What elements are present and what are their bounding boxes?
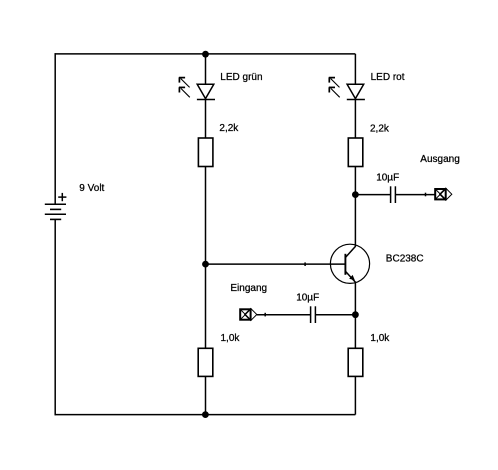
LED D2 rot — [329, 77, 365, 99]
svg-text:2,2k: 2,2k — [219, 123, 239, 134]
wire emitter down — [354, 283, 356, 349]
capacitor C2 10uF — [391, 186, 396, 203]
junction node base — [202, 261, 209, 268]
wire right branch R2 to transistor — [354, 167, 356, 247]
wire top rail — [55, 53, 356, 55]
svg-text:BC238C: BC238C — [386, 254, 424, 265]
connector X1 Eingang — [240, 308, 257, 320]
wire left branch middle — [205, 167, 207, 349]
wire left vertical upper (battery +) — [54, 53, 56, 204]
wire C2 to output connector — [395, 194, 435, 196]
wire bottom rail — [55, 414, 356, 416]
pin tick input — [264, 313, 266, 317]
battery plus sign — [58, 193, 66, 201]
svg-text:10µF: 10µF — [296, 293, 319, 304]
pin tick output — [425, 193, 427, 197]
pin tick base — [304, 262, 306, 266]
svg-text:1,0k: 1,0k — [221, 333, 241, 344]
wire output node to C2 — [355, 194, 390, 196]
svg-text:Eingang: Eingang — [230, 283, 267, 294]
junction node output — [352, 191, 359, 198]
wire right LED to R2 — [354, 100, 356, 139]
wire left branch bottom — [205, 376, 207, 414]
svg-text:9 Volt: 9 Volt — [79, 183, 104, 194]
svg-text:Ausgang: Ausgang — [420, 154, 459, 165]
svg-text:10µF: 10µF — [376, 173, 399, 184]
svg-text:1,0k: 1,0k — [370, 333, 390, 344]
wire left branch top — [205, 54, 207, 84]
svg-text:2,2k: 2,2k — [370, 123, 390, 134]
capacitor C1 10uF — [311, 306, 316, 323]
svg-text:LED rot: LED rot — [371, 72, 405, 83]
junction node emitter input — [352, 311, 359, 318]
resistor R3 1,0k left — [198, 348, 213, 376]
wire right branch top — [354, 54, 356, 84]
wire left LED to R1 — [205, 100, 207, 139]
resistor R2 2,2k — [348, 138, 363, 167]
svg-text:LED grün: LED grün — [220, 72, 262, 83]
wire left vertical lower (battery -) — [54, 219, 56, 415]
wire input connector to C1 — [257, 314, 311, 316]
resistor R1 2,2k — [198, 138, 213, 167]
connector X2 Ausgang — [435, 188, 452, 200]
resistor R4 1,0k right — [348, 348, 363, 376]
wire right branch bottom — [354, 376, 356, 414]
battery B1 9 Volt — [45, 204, 66, 219]
wire C1 to emitter node — [315, 314, 355, 316]
junction node bottom — [202, 411, 209, 418]
LED D1 grün — [179, 77, 215, 99]
transistor Q1 BC238C — [330, 244, 369, 283]
wire base from node to transistor — [206, 263, 346, 265]
junction node top left branch — [202, 51, 209, 58]
